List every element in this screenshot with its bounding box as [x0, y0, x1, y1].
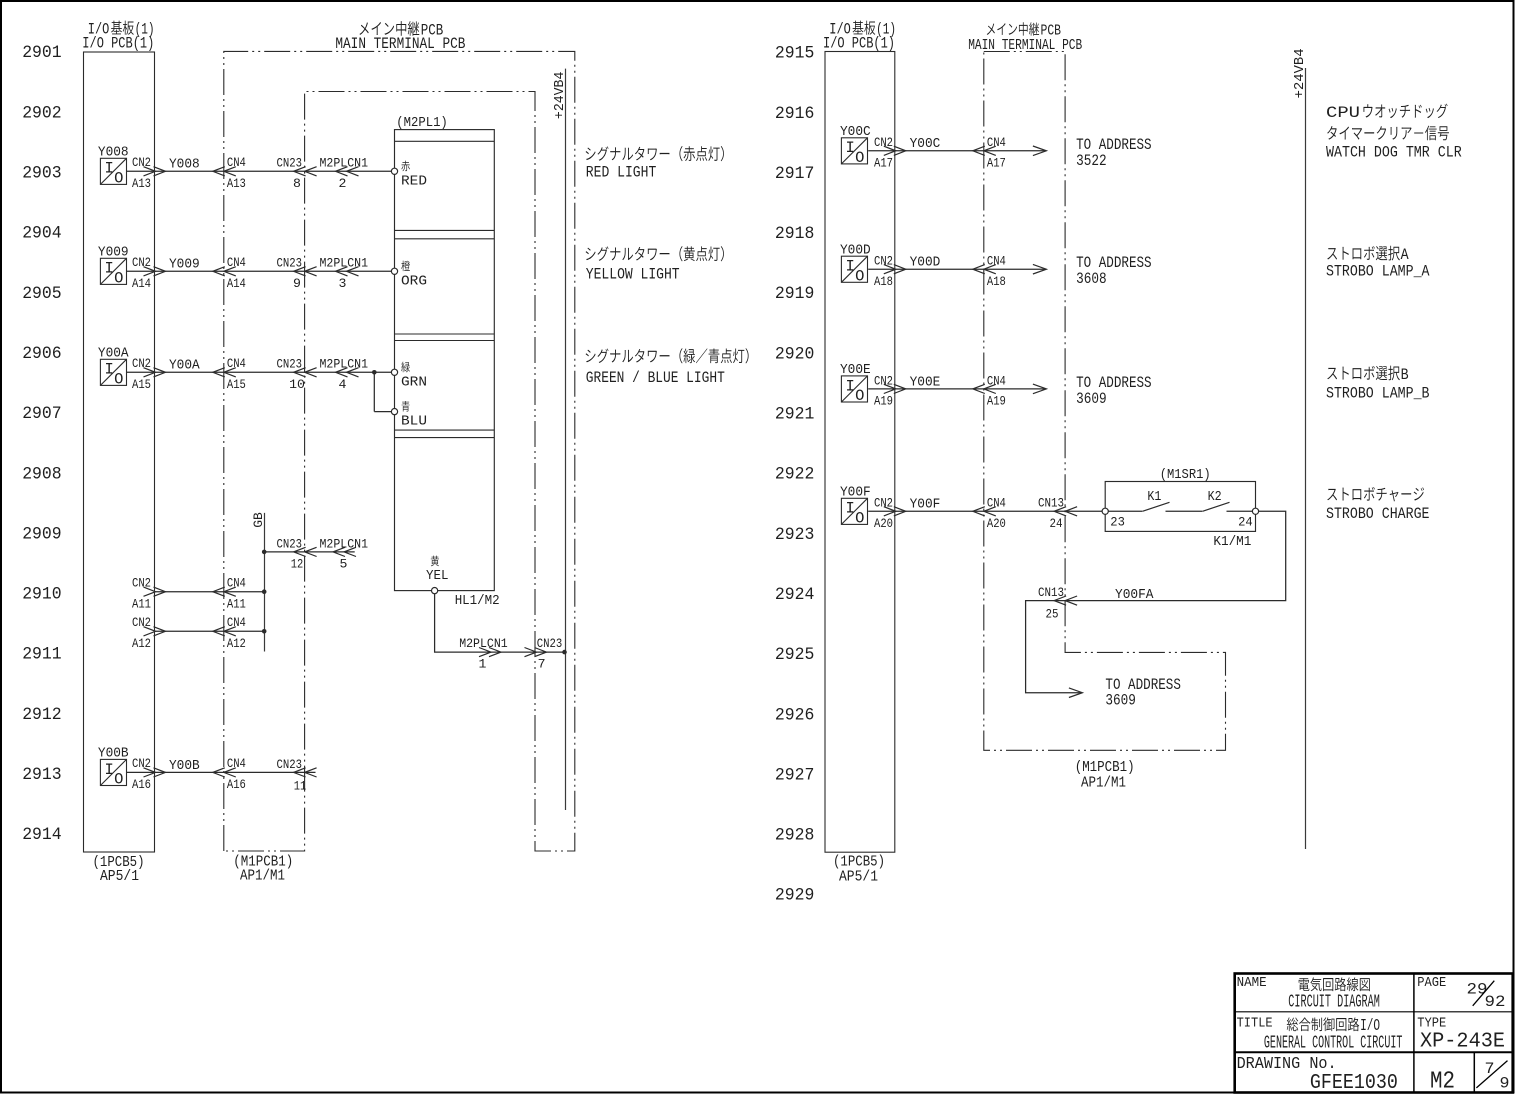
arrow CN4 A14 [213, 267, 236, 276]
terminal YEL [432, 588, 438, 594]
svg-text:7: 7 [1485, 1060, 1495, 1078]
svg-text:PCB: PCB [1041, 24, 1062, 40]
svg-text:CN4: CN4 [227, 615, 246, 630]
M2PL1 divider [395, 437, 495, 439]
junction GB/A11 [262, 589, 267, 594]
svg-text:CN23: CN23 [277, 357, 303, 372]
svg-text:2901: 2901 [22, 43, 62, 63]
svg-text:2905: 2905 [22, 284, 62, 304]
arrow CN2 A20 [884, 507, 906, 516]
M2PL1 divider [395, 238, 495, 240]
wire BLU [374, 411, 391, 413]
svg-text:TITLE: TITLE [1237, 1016, 1273, 1031]
svg-text:2928: 2928 [775, 826, 815, 846]
arrow CN4 A17 [973, 146, 996, 155]
svg-text:WATCH DOG TMR CLR: WATCH DOG TMR CLR [1326, 143, 1462, 161]
svg-text:2911: 2911 [22, 645, 62, 665]
svg-text:A18: A18 [987, 274, 1006, 289]
svg-text:GFEE1030: GFEE1030 [1310, 1071, 1398, 1094]
annotation ストロボチャージ STROBO CHARGE [1327, 489, 1337, 501]
arrow M2PLCN1 pin 3 [336, 267, 359, 276]
svg-text:3522: 3522 [1076, 152, 1107, 170]
svg-text:2917: 2917 [775, 164, 815, 184]
svg-text:CN4: CN4 [987, 373, 1006, 388]
svg-text:8: 8 [293, 176, 301, 191]
arrowhead to address [1033, 264, 1047, 274]
arrowhead to address 3609 [1069, 688, 1083, 698]
svg-text:Y008: Y008 [98, 144, 129, 160]
junction GB/A12 [262, 629, 267, 634]
title block divider row1/row2 [1235, 1011, 1513, 1013]
terminal GRN [391, 369, 397, 375]
svg-text:I/O PCB(1): I/O PCB(1) [823, 34, 895, 52]
M2PL1 divider [395, 429, 495, 431]
wire Y009 [127, 270, 392, 272]
M2PL1 divider [395, 229, 495, 231]
wire branch to BLU [373, 372, 375, 411]
svg-text:2918: 2918 [775, 224, 815, 244]
svg-text:Y00F: Y00F [910, 497, 941, 513]
svg-text:CN13: CN13 [1038, 496, 1064, 511]
arrow CN4 A16 [213, 768, 236, 777]
svg-text:24: 24 [1050, 516, 1063, 531]
svg-text:A15: A15 [132, 377, 151, 392]
svg-text:A16: A16 [227, 777, 246, 792]
annotation シグナルタワー（黄点灯） YELLOW LIGHT [586, 248, 596, 261]
arrow M2PLCN1 pin 5 [333, 547, 356, 556]
svg-text:CN4: CN4 [227, 255, 246, 270]
svg-text:Y009: Y009 [169, 257, 200, 273]
svg-text:2914: 2914 [22, 825, 62, 845]
svg-text:2922: 2922 [775, 465, 815, 485]
M2PL1 divider [395, 340, 495, 342]
svg-text:Y00A: Y00A [98, 345, 129, 361]
terminal BLU [391, 409, 397, 415]
wire Y00A [127, 371, 392, 373]
svg-text:2923: 2923 [775, 525, 815, 545]
wire Y00E [868, 388, 1045, 390]
arrow CN23 pin 10 [294, 368, 317, 377]
svg-text:O: O [855, 149, 864, 167]
svg-text:92: 92 [1485, 993, 1506, 1011]
svg-text:12: 12 [291, 557, 304, 572]
svg-text:A17: A17 [987, 156, 1006, 171]
label メイン中継PCB (right) [987, 23, 995, 34]
arrow CN4 A12 [213, 627, 236, 636]
terminal RED [391, 168, 397, 174]
svg-text:A12: A12 [227, 636, 246, 651]
terminal ORG [391, 268, 397, 274]
svg-text:CN23: CN23 [277, 536, 303, 551]
svg-text:3609: 3609 [1076, 390, 1107, 408]
svg-text:CN13: CN13 [1038, 585, 1064, 600]
svg-text:2926: 2926 [775, 705, 815, 725]
svg-text:GREEN / BLUE LIGHT: GREEN / BLUE LIGHT [586, 369, 725, 387]
arrow CN13 pin 25 [1054, 596, 1077, 605]
svg-text:2910: 2910 [22, 585, 62, 605]
svg-text:3608: 3608 [1076, 270, 1107, 288]
label 黄 YEL [431, 556, 439, 567]
svg-text:AP1/M1: AP1/M1 [240, 869, 285, 885]
arrowhead to address [1033, 384, 1047, 394]
I/O driver Y00D [841, 256, 867, 285]
annotation ストロボ選択B STROBO LAMP_B [1327, 368, 1337, 380]
svg-text:O: O [114, 771, 123, 789]
svg-text:GB: GB [251, 512, 266, 528]
M2PL1 divider [395, 140, 495, 142]
arrowhead to address [1033, 146, 1047, 156]
wire CN2 A12 to GB [155, 630, 265, 632]
svg-text:MAIN TERMINAL PCB: MAIN TERMINAL PCB [335, 35, 465, 53]
svg-text:CN2: CN2 [874, 135, 893, 150]
svg-text:A19: A19 [874, 394, 893, 409]
chain boundary MAIN TERMINAL PCB M1PCB1 (left) [224, 51, 575, 851]
arrow CN2 A16 [144, 768, 166, 777]
svg-text:2912: 2912 [22, 705, 62, 725]
arrow CN2 A11 [144, 587, 166, 596]
svg-text:AP1/M1: AP1/M1 [1081, 776, 1126, 792]
junction GB/CN23-12 [262, 550, 267, 555]
svg-text:(M1PCB1): (M1PCB1) [1075, 760, 1135, 776]
I/O driver Y00F [841, 498, 867, 527]
svg-text:I/O PCB(1): I/O PCB(1) [82, 34, 154, 52]
svg-text:A: A [1401, 246, 1409, 264]
svg-text:MAIN TERMINAL PCB: MAIN TERMINAL PCB [968, 38, 1082, 54]
svg-text:I: I [845, 139, 854, 157]
contact terminal 24 [1252, 508, 1258, 514]
svg-text:4: 4 [339, 377, 347, 392]
I/O PCB(1) board box AP5/1 (left) [84, 52, 155, 852]
signal tower unit M2PL1 box [395, 130, 495, 591]
svg-text:GRN: GRN [401, 375, 427, 390]
svg-text:A20: A20 [987, 516, 1006, 531]
svg-text:Y00C: Y00C [910, 136, 941, 152]
wire GB to CN23 pin 12 [264, 551, 355, 553]
svg-text:M2: M2 [1430, 1068, 1455, 1094]
GB bus line [264, 513, 266, 652]
svg-text:YEL: YEL [426, 569, 449, 584]
I/O driver Y008 [100, 158, 126, 187]
junction +24VB4/YEL [562, 650, 567, 655]
svg-text:STROBO CHARGE: STROBO CHARGE [1326, 505, 1430, 523]
svg-text:2913: 2913 [22, 765, 62, 785]
svg-text:10: 10 [289, 377, 305, 392]
svg-text:2906: 2906 [22, 344, 62, 364]
svg-text:1: 1 [479, 656, 487, 671]
svg-text:K1: K1 [1147, 490, 1161, 505]
svg-text:2915: 2915 [775, 44, 815, 64]
svg-text:M2PLCN1: M2PLCN1 [320, 256, 369, 271]
svg-text:I: I [104, 761, 113, 779]
svg-text:I: I [845, 500, 854, 518]
svg-text:NAME: NAME [1237, 976, 1267, 991]
chain boundary MAIN TERMINAL PCB M1PCB1 (right) [984, 52, 1226, 751]
title block frame [1235, 974, 1513, 1093]
svg-text:CN23: CN23 [277, 757, 303, 772]
arrow CN2 A15 [144, 368, 166, 377]
svg-text:HL1/M2: HL1/M2 [455, 593, 500, 609]
svg-text:Y00FA: Y00FA [1115, 587, 1154, 603]
svg-text:K1/M1: K1/M1 [1213, 534, 1251, 550]
svg-text:I: I [104, 260, 113, 278]
svg-text:2902: 2902 [22, 103, 62, 123]
wire Y00D [868, 268, 1045, 270]
M2PL1 divider [395, 333, 495, 335]
title 総合制御回路I/O [1287, 1017, 1298, 1031]
svg-text:2925: 2925 [775, 645, 815, 665]
svg-text:I: I [845, 258, 854, 276]
svg-text:11: 11 [294, 779, 307, 794]
svg-text:(M2PL1): (M2PL1) [396, 115, 448, 131]
I/O driver Y00B [100, 759, 126, 788]
svg-text:2903: 2903 [22, 164, 62, 184]
svg-text:I: I [104, 160, 113, 178]
arrow CN23 pin 8 [294, 167, 317, 176]
I/O driver Y00C [841, 138, 867, 167]
svg-text:M2PLCN1: M2PLCN1 [459, 636, 508, 651]
I/O PCB(1) board box AP5/1 (right) [825, 52, 895, 853]
svg-text:A16: A16 [132, 777, 151, 792]
label 緑 GRN [401, 362, 410, 373]
svg-text:I: I [104, 361, 113, 379]
svg-text:Y008: Y008 [169, 157, 200, 173]
contact terminal 23 [1102, 508, 1108, 514]
svg-text:CN23: CN23 [277, 256, 303, 271]
svg-text:Y00A: Y00A [169, 358, 200, 374]
label 青 BLU [402, 401, 410, 412]
title block divider col2 [1473, 1052, 1475, 1092]
svg-text:CN4: CN4 [987, 496, 1006, 511]
svg-text:AP5/1: AP5/1 [100, 869, 139, 885]
svg-text:Y00B: Y00B [98, 746, 129, 762]
svg-text:O: O [114, 371, 123, 389]
svg-text:CN2: CN2 [874, 496, 893, 511]
svg-text:O: O [855, 267, 864, 285]
I/O driver Y009 [100, 258, 126, 287]
svg-text:CN2: CN2 [132, 756, 151, 771]
wire Y00C [868, 150, 1045, 152]
arrow CN2 A12 [144, 627, 166, 636]
svg-text:O: O [855, 387, 864, 405]
power line +24VB4 (right) [1305, 68, 1307, 849]
svg-text:Y00F: Y00F [840, 484, 871, 500]
arrow CN4 A19 [973, 384, 996, 393]
arrow CN4 A11 [213, 587, 236, 596]
svg-text:A12: A12 [132, 636, 151, 651]
svg-text:3609: 3609 [1105, 692, 1136, 710]
wire Y00B [127, 771, 316, 773]
svg-text:5: 5 [340, 557, 348, 572]
svg-text:2904: 2904 [22, 224, 62, 244]
I/O driver Y00E [841, 376, 867, 405]
svg-text:+24VB4: +24VB4 [553, 72, 568, 120]
arrow CN2 A14 [144, 267, 166, 276]
svg-text:2916: 2916 [775, 104, 815, 124]
svg-text:K2: K2 [1208, 490, 1222, 505]
svg-text:A11: A11 [227, 597, 246, 612]
arrow CN2 A13 [144, 167, 166, 176]
svg-text:CN23: CN23 [537, 636, 563, 651]
svg-text:A14: A14 [227, 276, 246, 291]
svg-text:ORG: ORG [401, 274, 427, 289]
svg-text:CN4: CN4 [987, 135, 1006, 150]
svg-text:2908: 2908 [22, 464, 62, 484]
svg-text:A13: A13 [227, 176, 246, 191]
svg-text:+24VB4: +24VB4 [1293, 48, 1308, 98]
svg-text:B: B [1401, 366, 1409, 384]
svg-text:I: I [845, 377, 854, 395]
label メイン中継PCB (left) [359, 22, 368, 35]
svg-text:CN2: CN2 [874, 373, 893, 388]
svg-text:O: O [114, 270, 123, 288]
annotation シグナルタワー（緑／青点灯） GREEN / BLUE LIGHT [586, 350, 596, 363]
arrow CN23 pin 9 [294, 267, 317, 276]
svg-text:RED LIGHT: RED LIGHT [586, 164, 657, 182]
svg-text:2929: 2929 [775, 886, 815, 906]
svg-text:CN23: CN23 [277, 156, 303, 171]
arrow CN4 A20 [973, 507, 996, 516]
relay contact box M1SR1 [1105, 482, 1255, 532]
svg-text:A19: A19 [987, 394, 1006, 409]
arrow CN2 A18 [884, 265, 906, 274]
svg-text:Y00D: Y00D [840, 242, 871, 258]
svg-text:CN2: CN2 [132, 356, 151, 371]
svg-text:2907: 2907 [22, 404, 62, 424]
wire YEL to +24VB4 [435, 594, 563, 652]
svg-text:M2PLCN1: M2PLCN1 [320, 357, 369, 372]
label 橙 ORG [401, 261, 410, 272]
svg-text:2909: 2909 [22, 524, 62, 544]
svg-text:(1PCB5): (1PCB5) [833, 854, 885, 870]
wire Y00F [868, 510, 1102, 512]
svg-text:A18: A18 [874, 274, 893, 289]
svg-text:A17: A17 [874, 156, 893, 171]
svg-text:YELLOW LIGHT: YELLOW LIGHT [586, 265, 680, 283]
arrow CN4 A13 [213, 167, 236, 176]
wire Y008 [127, 170, 392, 172]
svg-text:BLU: BLU [401, 415, 427, 430]
svg-text:CN2: CN2 [132, 255, 151, 270]
svg-text:CN4: CN4 [227, 576, 246, 591]
svg-text:Y00B: Y00B [169, 758, 200, 774]
svg-text:CN4: CN4 [227, 356, 246, 371]
svg-text:Y00D: Y00D [910, 255, 941, 271]
switch K1 [1108, 510, 1142, 512]
svg-text:CN4: CN4 [987, 254, 1006, 269]
svg-text:CN4: CN4 [227, 756, 246, 771]
svg-text:A11: A11 [132, 597, 151, 612]
arrow CN4 A15 [213, 368, 236, 377]
svg-text:Y009: Y009 [98, 244, 129, 260]
title 電気回路線図 [1299, 978, 1310, 991]
svg-text:M2PLCN1: M2PLCN1 [320, 536, 369, 551]
svg-text:A15: A15 [227, 377, 246, 392]
svg-text:3: 3 [339, 276, 347, 291]
switch K2 [1166, 510, 1203, 512]
svg-text:CN2: CN2 [874, 254, 893, 269]
svg-text:2920: 2920 [775, 344, 815, 364]
svg-text:CN2: CN2 [132, 615, 151, 630]
junction GRN/BLU branch [372, 370, 377, 375]
svg-text:O: O [855, 510, 864, 528]
svg-text:CN2: CN2 [132, 576, 151, 591]
svg-text:2: 2 [339, 176, 347, 191]
svg-text:STROBO LAMP_A: STROBO LAMP_A [1326, 263, 1430, 281]
arrow M2PLCN1 pin 2 [336, 167, 359, 176]
arrow CN23 pin 12 [294, 547, 317, 556]
arrow CN2 A17 [884, 146, 906, 155]
wire Y00FA from contact 24 [1026, 511, 1286, 692]
svg-text:CN2: CN2 [132, 155, 151, 170]
svg-text:24: 24 [1238, 514, 1253, 529]
svg-text:XP-243E: XP-243E [1420, 1030, 1505, 1054]
svg-text:AP5/1: AP5/1 [839, 869, 878, 885]
svg-text:7: 7 [538, 656, 546, 671]
svg-text:2924: 2924 [775, 585, 815, 605]
svg-text:PAGE: PAGE [1417, 976, 1446, 991]
annotation ストロボ選択A STROBO LAMP_A [1327, 248, 1337, 260]
svg-text:GENERAL CONTROL CIRCUIT: GENERAL CONTROL CIRCUIT [1264, 1033, 1403, 1054]
svg-text:2919: 2919 [775, 284, 815, 304]
power line +24VB4 (left) [565, 69, 567, 810]
svg-text:(M1SR1): (M1SR1) [1160, 467, 1211, 483]
annotation シグナルタワー（赤点灯） RED LIGHT [586, 147, 596, 160]
svg-text:9: 9 [1500, 1075, 1510, 1093]
arrow M2PLCN1 pin 1 [479, 648, 501, 657]
title block divider row2/row3 [1235, 1051, 1513, 1053]
arrow M2PLCN1 pin 4 [336, 368, 359, 377]
svg-text:Y00C: Y00C [840, 124, 871, 140]
svg-text:CIRCUIT DIAGRAM: CIRCUIT DIAGRAM [1288, 991, 1380, 1012]
svg-text:25: 25 [1046, 607, 1059, 622]
wire CN2 A11 to GB [155, 591, 265, 593]
svg-text:CPU: CPU [1326, 104, 1360, 122]
svg-text:23: 23 [1110, 514, 1125, 529]
svg-text:RED: RED [401, 174, 427, 189]
label 赤 RED [401, 161, 410, 172]
svg-text:CN4: CN4 [227, 155, 246, 170]
arrow CN23 pin 11 [294, 768, 317, 777]
svg-text:M2PLCN1: M2PLCN1 [320, 156, 369, 171]
arrow CN4 A18 [973, 265, 996, 274]
arrow CN2 A19 [884, 384, 906, 393]
svg-text:2927: 2927 [775, 765, 815, 785]
arrow CN13 pin 24 [1054, 507, 1077, 516]
wire to terminal 24 [1227, 510, 1253, 512]
arrow CN23 pin 7 [525, 648, 547, 657]
svg-text:A20: A20 [874, 516, 893, 531]
svg-text:O: O [114, 170, 123, 188]
I/O driver Y00A [100, 359, 126, 388]
svg-text:A14: A14 [132, 276, 151, 291]
svg-text:2921: 2921 [775, 405, 815, 425]
svg-text:STROBO LAMP_B: STROBO LAMP_B [1326, 384, 1430, 402]
title block divider col [1413, 974, 1415, 1093]
svg-text:A13: A13 [132, 176, 151, 191]
svg-text:Y00E: Y00E [910, 374, 941, 390]
svg-text:9: 9 [293, 276, 301, 291]
svg-text:Y00E: Y00E [840, 362, 871, 378]
